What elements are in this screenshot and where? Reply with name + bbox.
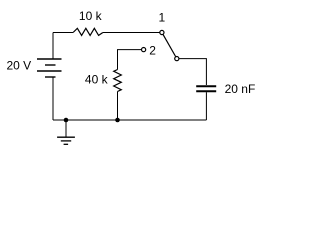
svg-text:1: 1: [158, 11, 165, 25]
switch pole contact: [175, 57, 179, 61]
wire source bottom lead: [52, 78, 54, 121]
junction ground node: [64, 118, 69, 123]
wire R1 to switch throw 1: [103, 32, 160, 34]
switch throw contact 1: [160, 30, 164, 34]
svg-text:40 k: 40 k: [85, 73, 109, 87]
resistor R1 10 k: [73, 28, 103, 35]
switch throw contact 2: [142, 48, 146, 52]
battery V1 plate long: [37, 70, 62, 72]
capacitor C1 bottom plate: [196, 90, 216, 92]
ground symbol: [57, 137, 75, 144]
svg-text:10 k: 10 k: [79, 9, 103, 23]
wire top-left horizontal from source to R1: [53, 32, 73, 34]
bottom rail wire: [53, 119, 206, 121]
switch arm (pole to throw 1): [163, 35, 176, 57]
wire capacitor to bottom rail: [205, 92, 207, 120]
wire pole to capacitor branch: [179, 59, 206, 85]
svg-text:2: 2: [149, 44, 156, 58]
battery V1 plate short bottom: [45, 76, 56, 78]
ground stub wire: [65, 120, 67, 137]
battery V1 plate long top: [37, 58, 62, 60]
wire source top lead: [52, 33, 54, 59]
battery V1 plate short: [45, 64, 56, 66]
resistor R2 40 k: [114, 70, 122, 92]
wire R2 bottom lead: [117, 92, 119, 121]
junction R2 bottom node: [115, 118, 120, 123]
svg-text:20 nF: 20 nF: [225, 82, 256, 96]
svg-text:20 V: 20 V: [7, 59, 32, 73]
wire R2 top to switch throw 2: [118, 50, 142, 70]
capacitor C1 top plate: [196, 85, 216, 87]
